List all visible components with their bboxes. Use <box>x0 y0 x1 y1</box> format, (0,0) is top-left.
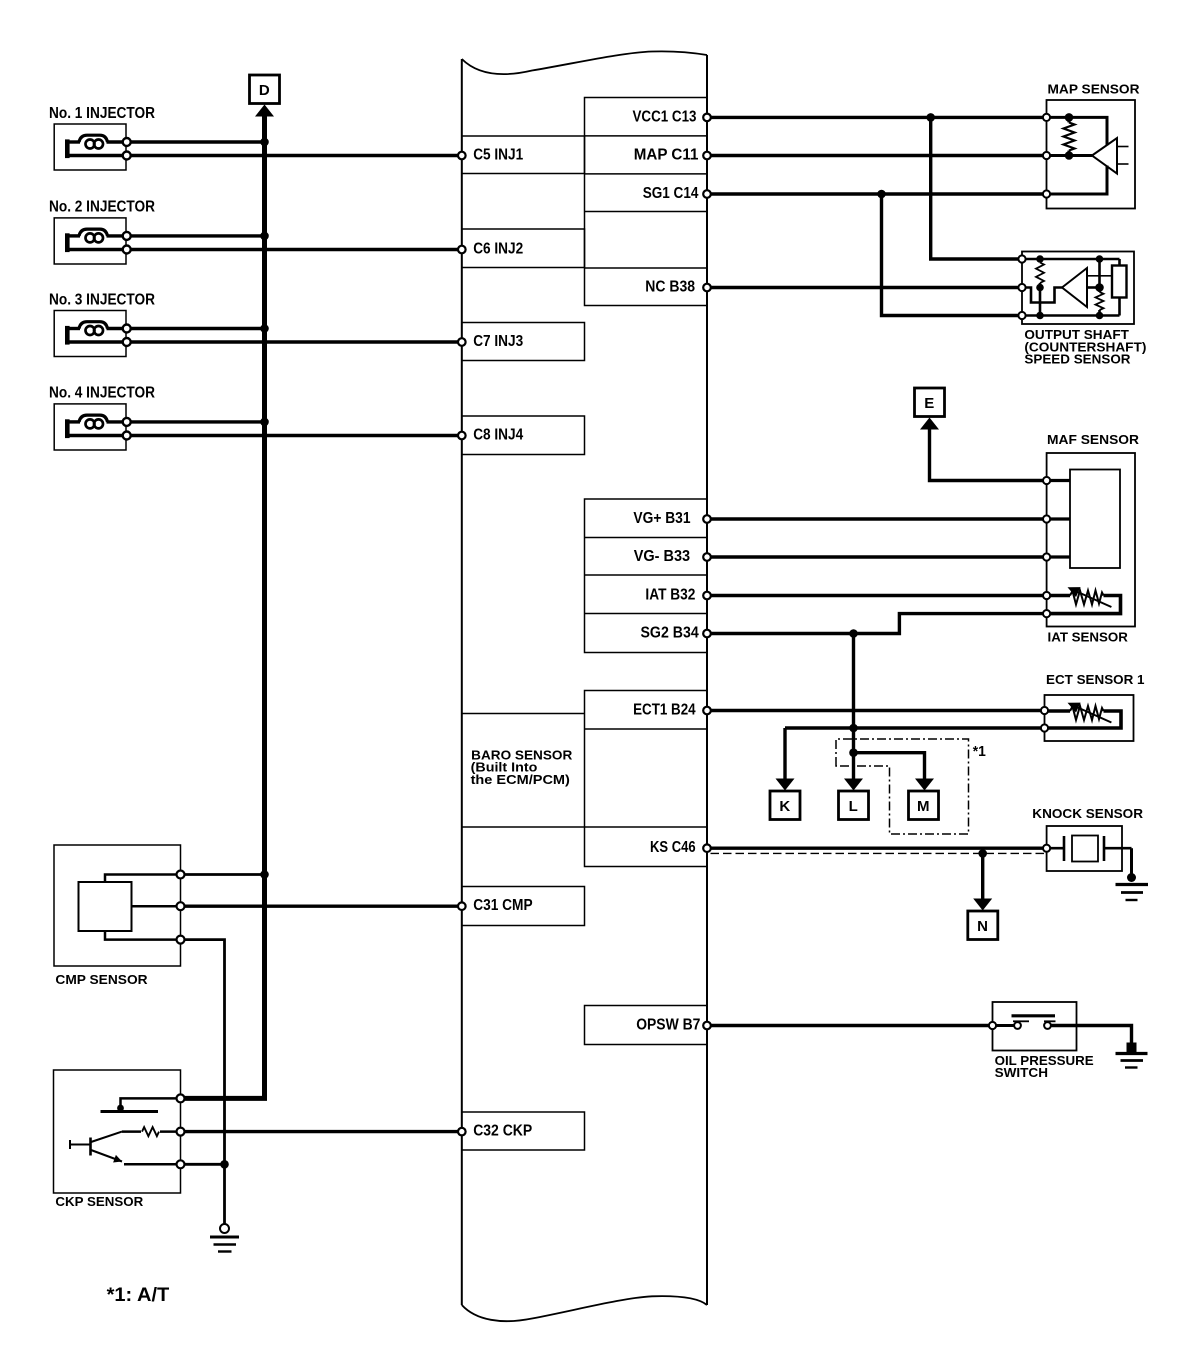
svg-text:*1: *1 <box>973 743 986 760</box>
output shaft speed sensor box <box>1022 252 1134 325</box>
CKP sensor internal resistor <box>160 1130 181 1133</box>
injector no.3 bottom internal wire <box>67 340 123 343</box>
junction L/M branch <box>849 748 858 757</box>
ECM pin box C31 CMP <box>462 887 585 926</box>
injector no.2 coil <box>79 229 108 236</box>
speed sensor terminals <box>1018 255 1025 262</box>
pin terminal C32 CKP <box>458 1128 466 1136</box>
injector no.2 left bar <box>65 233 70 252</box>
oil pressure switch contacts <box>993 1024 1015 1027</box>
MAF sensor inner element box <box>1070 470 1120 569</box>
junction SG2 wire to sensor-ground branch <box>849 629 858 638</box>
ground symbol (earth) <box>210 1236 239 1239</box>
pin terminal VG+ B31 <box>703 515 711 523</box>
junction on bus injector no.2 <box>260 232 269 241</box>
pin terminal MAP C11 <box>703 152 711 160</box>
CKP sensor box <box>54 1070 181 1193</box>
svg-text:CKP SENSOR: CKP SENSOR <box>55 1194 143 1209</box>
injector no.2 terminal circles <box>123 232 131 240</box>
svg-text:CMP SENSOR: CMP SENSOR <box>55 972 148 987</box>
ECM pin box C32 CKP <box>462 1112 585 1150</box>
MAP sensor internal top rail <box>1047 117 1108 145</box>
MAP sensor box <box>1047 100 1136 209</box>
MAP sensor terminals <box>1043 114 1050 121</box>
CKP sensor internal pickup <box>121 1098 181 1108</box>
knock sensor terminal <box>1043 845 1050 852</box>
injector no.4 terminal circles <box>123 418 131 426</box>
pin terminal C7 INJ3 <box>458 338 466 346</box>
wire VCC1 branch down to speed sensor <box>931 117 1022 259</box>
wire CMP signal to ECM C31 <box>184 905 462 908</box>
ECT sensor box <box>1045 695 1134 741</box>
speed sensor internal right resistor column <box>1098 259 1101 292</box>
speed sensor right rect resistor <box>1118 259 1121 266</box>
injector no.2 wire to bus (power) <box>131 234 265 237</box>
CKP sensor terminals <box>177 1094 185 1102</box>
svg-text:C7 INJ3: C7 INJ3 <box>473 333 523 350</box>
svg-text:No. 4 INJECTOR: No. 4 INJECTOR <box>49 385 155 402</box>
connector N box <box>968 911 998 940</box>
injector no.2 top wire stubs <box>67 234 80 237</box>
wire ECT1 B24 to ECT sensor <box>707 709 1045 712</box>
svg-text:MAF SENSOR: MAF SENSOR <box>1047 432 1140 447</box>
ECM pin box OPSW B7 <box>585 1006 708 1045</box>
pin terminal C31 CMP <box>458 902 466 910</box>
speed sensor feedback thin wire <box>1087 275 1112 277</box>
svg-text:ECT1 B24: ECT1 B24 <box>633 701 696 718</box>
speed sensor internal left resistor <box>1039 259 1042 263</box>
svg-text:C6 INJ2: C6 INJ2 <box>473 240 523 257</box>
injector no.4 top wire stubs <box>67 420 80 423</box>
oil pressure switch ground symbol <box>1127 1043 1137 1053</box>
junction on bus injector no.4 <box>260 418 269 427</box>
svg-text:C32 CKP: C32 CKP <box>473 1123 532 1140</box>
MAP sensor internal bottom rail <box>1047 166 1108 195</box>
svg-text:No. 1 INJECTOR: No. 1 INJECTOR <box>49 105 155 122</box>
pin terminal NC B38 <box>703 284 711 292</box>
wire SG2 B34 to MAF sensor <box>707 614 1047 634</box>
speed sensor input jog from middle terminal <box>1022 288 1062 303</box>
MAF sensor box <box>1047 453 1135 627</box>
CMP sensor box <box>54 845 181 966</box>
svg-text:No. 2 INJECTOR: No. 2 INJECTOR <box>49 199 155 216</box>
injector no.3 left bar <box>65 326 70 345</box>
wire ECT sensor ground return to K/L/M <box>785 726 1045 729</box>
MAF sensor element stubs <box>1047 479 1070 482</box>
knock sensor ground wire <box>1130 848 1133 877</box>
svg-text:L: L <box>849 798 859 815</box>
svg-text:IAT SENSOR: IAT SENSOR <box>1048 630 1129 645</box>
ECM pin box group VG+ B31 / VG- B33 / IAT B32 / SG2 B34 <box>585 499 708 653</box>
knock sensor shield dashed wire <box>711 852 1045 854</box>
pin terminal SG1 C14 <box>703 190 711 198</box>
svg-text:M: M <box>917 798 930 815</box>
svg-text:SWITCH: SWITCH <box>995 1065 1048 1080</box>
pin terminal VCC1 C13 <box>703 114 711 122</box>
injector no.1 wire to bus (power) <box>131 140 265 143</box>
wire VG+ B31 to MAF sensor <box>707 517 1047 520</box>
CKP sensor transistor symbol <box>69 1140 71 1149</box>
svg-text:VG- B33: VG- B33 <box>634 548 691 565</box>
pin terminal VG- B33 <box>703 553 711 561</box>
CMP sensor internal wires <box>105 875 181 883</box>
ECM pin box C6 INJ2 <box>462 229 585 268</box>
pin terminal C8 INJ4 <box>458 432 466 440</box>
ECM pin box group ECT1 B24 / KS C46 <box>585 691 708 867</box>
injector no.4 wire to bus (power) <box>131 420 265 423</box>
arrowhead into connector E <box>920 418 939 430</box>
ground terminal circle <box>220 1224 229 1233</box>
injector no.3 wire to ECM pin <box>131 340 462 343</box>
svg-text:OPSW B7: OPSW B7 <box>636 1016 700 1033</box>
speed sensor internal bottom rail <box>1022 314 1120 317</box>
ECM pin box C5 INJ1 <box>462 136 585 174</box>
pin terminal C6 INJ2 <box>458 246 466 254</box>
ECM/PCM band torn bottom edge <box>462 1296 707 1321</box>
connector L box <box>839 791 869 820</box>
injector no.1 box <box>54 124 126 170</box>
arrowhead into connector N <box>973 899 992 911</box>
ECM pin box C7 INJ3 <box>462 323 585 361</box>
junction shield to connector N <box>978 849 987 858</box>
svg-text:No. 3 INJECTOR: No. 3 INJECTOR <box>49 291 155 308</box>
wire KS C46 to knock sensor <box>707 847 1047 850</box>
arrowhead into connector M <box>915 779 934 791</box>
arrowhead into connector K <box>776 779 795 791</box>
wire to connector M <box>854 753 925 781</box>
pin terminal OPSW B7 <box>703 1022 711 1030</box>
svg-text:NC B38: NC B38 <box>645 278 695 295</box>
svg-text:KS C46: KS C46 <box>650 839 696 856</box>
speed sensor op-amp output wire <box>1087 286 1100 289</box>
MAF sensor terminals <box>1043 477 1050 484</box>
svg-text:N: N <box>977 918 988 935</box>
BARO sensor region top line <box>462 713 585 715</box>
wire CMP power to bus <box>184 873 265 876</box>
wire shield drain to connector N <box>981 853 984 901</box>
pin terminal KS C46 <box>703 844 711 852</box>
junction on bus injector no.3 <box>260 324 269 333</box>
svg-text:VG+ B31: VG+ B31 <box>633 510 690 527</box>
MAP sensor internal resistor <box>1068 117 1071 122</box>
pin terminal C5 INJ1 <box>458 152 466 160</box>
injector no.1 terminal circles <box>123 138 131 146</box>
junction CMP power on bus <box>260 870 269 879</box>
wire VG- B33 to MAF sensor <box>707 555 1047 558</box>
connector E box <box>915 388 945 417</box>
injector no.1 wire to ECM pin <box>131 154 462 157</box>
MAP sensor output stubs <box>1118 146 1129 148</box>
injector no.3 wire to bus (power) <box>131 327 265 330</box>
injector no.1 left bar <box>65 139 70 158</box>
svg-text:MAP SENSOR: MAP SENSOR <box>1048 82 1141 97</box>
svg-text:*1: A/T: *1: A/T <box>107 1285 170 1306</box>
BARO sensor region bottom line <box>462 826 707 828</box>
svg-text:SG2 B34: SG2 B34 <box>641 624 700 641</box>
injector no.4 coil <box>79 415 108 422</box>
pin terminal IAT B32 <box>703 592 711 600</box>
CMP sensor inner element <box>79 882 132 931</box>
IAT sensor thermistor inside MAF box <box>1047 594 1070 597</box>
speed sensor internal top rail <box>1022 258 1120 261</box>
injector no.4 box <box>54 404 126 450</box>
A/T-only dash-dot boundary *1 <box>836 739 969 834</box>
connector D box <box>250 75 280 104</box>
wire MAF power to connector E <box>930 426 1047 481</box>
junction SG1 wire to speed sensor branch <box>877 190 886 199</box>
svg-text:MAP C11: MAP C11 <box>634 146 699 163</box>
ECT sensor terminals <box>1041 707 1048 714</box>
junction VCC1 wire to speed sensor branch <box>926 113 935 122</box>
pin terminal SG2 B34 <box>703 630 711 638</box>
ECM/PCM band right edge (wire) <box>706 55 708 1305</box>
wire main injector bus from D down to CKP sensor <box>182 113 265 1098</box>
knock sensor ground symbol <box>1127 873 1136 882</box>
junction sensor-ground vertical at ECT return <box>849 724 858 733</box>
injector no.4 left bar <box>65 419 70 438</box>
ECM/PCM band torn top edge <box>462 51 707 74</box>
oil pressure switch output wire to ground <box>1051 1026 1132 1045</box>
speed sensor op-amp triangle <box>1062 268 1087 307</box>
wire NC B38 to speed sensor <box>707 286 1022 289</box>
MAP sensor op-amp triangle <box>1092 138 1117 174</box>
oil pressure switch terminal <box>989 1022 996 1029</box>
oil pressure switch contact points <box>1014 1022 1021 1029</box>
injector no.2 bottom internal wire <box>67 248 123 251</box>
arrowhead into connector D <box>255 105 274 117</box>
svg-text:SPEED SENSOR: SPEED SENSOR <box>1024 352 1131 367</box>
injector no.3 coil <box>79 322 108 329</box>
pin terminal ECT1 B24 <box>703 707 711 715</box>
svg-text:C8 INJ4: C8 INJ4 <box>473 426 523 443</box>
injector no.1 top wire stubs <box>67 140 80 143</box>
wire OPSW B7 to oil pressure switch <box>707 1024 993 1027</box>
wire MAP C11 to MAP sensor <box>707 154 1047 157</box>
svg-text:SG1 C14: SG1 C14 <box>643 185 699 202</box>
ECM pin box C8 INJ4 <box>462 416 585 455</box>
ECT sensor thermistor <box>1045 709 1071 712</box>
svg-text:D: D <box>259 82 270 99</box>
wire to connector K <box>783 728 786 781</box>
wire CMP ground down <box>184 940 225 1228</box>
wire VCC1 C13 to MAP sensor <box>707 116 1047 119</box>
oil pressure switch box <box>993 1002 1077 1051</box>
wire IAT B32 to MAF sensor <box>707 594 1047 597</box>
injector no.3 top wire stubs <box>67 327 80 330</box>
wire sensor-ground vertical <box>852 634 855 753</box>
injector no.1 coil <box>79 135 108 142</box>
injector no.2 box <box>54 218 126 264</box>
svg-text:KNOCK SENSOR: KNOCK SENSOR <box>1032 806 1143 821</box>
connector K box <box>770 791 800 820</box>
wire CKP ground to ground node <box>184 1163 225 1166</box>
injector no.4 bottom internal wire <box>67 434 123 437</box>
svg-text:C31 CMP: C31 CMP <box>473 897 532 914</box>
svg-text:the ECM/PCM): the ECM/PCM) <box>471 772 570 787</box>
ECM/PCM band left edge (wire) <box>461 59 463 1305</box>
connector M box <box>909 791 939 820</box>
injector no.2 wire to ECM pin <box>131 248 462 251</box>
svg-text:C5 INJ1: C5 INJ1 <box>473 146 523 163</box>
junction on bus injector no.1 <box>260 138 269 147</box>
injector no.3 box <box>54 311 126 357</box>
injector no.4 wire to ECM pin <box>131 434 462 437</box>
knock sensor piezo element <box>1047 847 1064 850</box>
injector no.3 terminal circles <box>123 325 131 333</box>
wire SG1 C14 to MAP sensor <box>707 192 1047 195</box>
svg-text:E: E <box>924 395 935 412</box>
knock sensor box <box>1047 826 1122 871</box>
junction CKP ground <box>220 1160 229 1169</box>
svg-text:K: K <box>779 798 790 815</box>
CMP sensor terminals <box>177 871 185 879</box>
injector no.1 bottom internal wire <box>67 154 123 157</box>
wire to connector L <box>852 753 855 781</box>
svg-text:IAT B32: IAT B32 <box>645 586 695 603</box>
ECM pin box group VCC1 C13 / MAP C11 / SG1 C14 / NC B38 <box>585 98 708 306</box>
arrowhead into connector L <box>844 779 863 791</box>
wire CKP signal to ECM C32 <box>184 1130 462 1133</box>
wire SG1 branch down to speed sensor <box>882 194 1023 316</box>
svg-text:VCC1 C13: VCC1 C13 <box>633 108 697 125</box>
MAP sensor internal middle rail <box>1047 154 1093 157</box>
svg-text:ECT SENSOR 1: ECT SENSOR 1 <box>1046 672 1145 687</box>
